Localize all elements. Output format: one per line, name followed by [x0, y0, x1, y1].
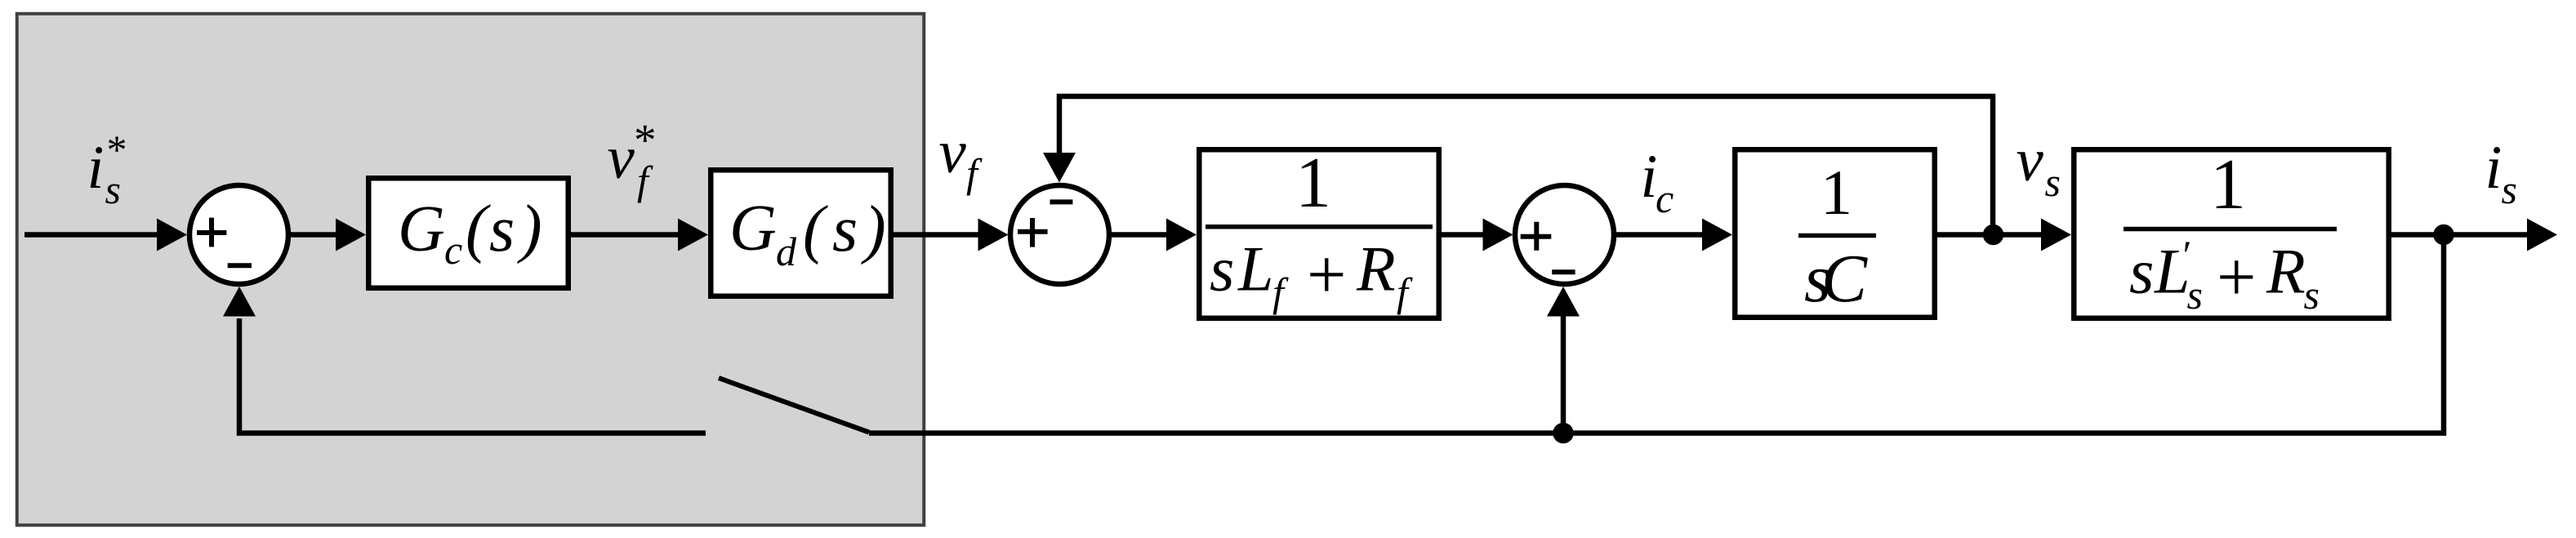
svg-text:(: (	[803, 193, 828, 265]
node is junction dot	[2433, 225, 2454, 246]
svg-text:C: C	[1821, 241, 1868, 317]
svg-text:s: s	[2187, 272, 2203, 318]
label Gd(s)	[729, 193, 886, 274]
svg-text:G: G	[398, 193, 445, 265]
S3 minus sign	[1552, 269, 1575, 274]
svg-text:+: +	[1307, 235, 1347, 313]
svg-text:(: (	[466, 193, 491, 265]
svg-text:+: +	[2217, 238, 2257, 316]
svg-text:*: *	[107, 127, 127, 172]
svg-text:L: L	[1237, 233, 1273, 305]
node vs junction dot	[1983, 225, 2004, 246]
fraction denominator sL's+Rs	[2129, 232, 2320, 318]
svg-text:s: s	[489, 193, 515, 265]
S1 minus sign	[228, 263, 252, 268]
svg-text:i: i	[87, 134, 105, 202]
node label i_s (output)	[2485, 134, 2517, 212]
S3 plus sign	[1521, 222, 1552, 251]
label Gc(s)	[398, 193, 542, 273]
wire: input into summing junction S1	[25, 219, 187, 251]
svg-text:*: *	[634, 115, 657, 165]
wire S1 to block Gc	[290, 219, 366, 251]
wire block 1/(sLf+Rf) to summing junction S3	[1442, 219, 1513, 251]
node label v_f*	[608, 115, 657, 203]
svg-text:s: s	[2304, 272, 2320, 318]
block 1/(sLf+Rf)	[1199, 149, 1439, 318]
svg-text:R: R	[2266, 236, 2306, 307]
svg-text:s: s	[832, 193, 858, 265]
svg-text:c: c	[444, 227, 462, 273]
svg-text:v: v	[939, 118, 967, 186]
summing junction S2	[1010, 185, 1109, 284]
svg-text:): )	[861, 193, 886, 265]
summing junction S3	[1515, 185, 1614, 284]
block Gc	[368, 178, 568, 288]
svg-text:v: v	[2017, 127, 2044, 194]
S2 plus sign	[1018, 218, 1048, 247]
svg-text:1: 1	[1821, 157, 1852, 228]
summing junction S1	[189, 185, 288, 284]
node label v_f	[939, 118, 983, 196]
switch arm (open)	[719, 378, 869, 433]
svg-text:): )	[517, 193, 542, 265]
fraction bar	[1206, 225, 1433, 229]
svg-text:f: f	[966, 150, 983, 196]
svg-text:G: G	[729, 193, 777, 265]
arrow into block 1/(sL's+Rs)	[2041, 219, 2071, 251]
svg-text:d: d	[776, 229, 797, 274]
node label i_s*	[87, 127, 127, 212]
wire Gc to block Gd	[571, 219, 708, 251]
block 1/(sL's+Rs)	[2074, 149, 2389, 318]
wire S2 to block 1/(sLf+Rf)	[1112, 219, 1197, 251]
svg-text:c: c	[1656, 176, 1674, 221]
svg-text:s: s	[1210, 233, 1234, 305]
block Gd	[711, 170, 891, 296]
wire up from feedback into S3	[1547, 287, 1580, 434]
wire Gd to summing junction S2	[894, 219, 1009, 251]
node label i_c	[1641, 143, 1674, 221]
shaded controller region	[17, 14, 925, 526]
fraction bar	[2124, 227, 2337, 232]
node label v_s	[2017, 127, 2061, 205]
svg-text:s: s	[2502, 167, 2517, 212]
svg-text:s: s	[2045, 159, 2061, 205]
fraction denominator sLf+Rf	[1210, 233, 1413, 316]
wire S3 to block 1/sC	[1616, 219, 1732, 251]
svg-text:′: ′	[2181, 232, 2190, 278]
svg-text:1: 1	[1295, 144, 1331, 223]
block 1/sC	[1735, 149, 1935, 318]
feedback wire from node vs to S2 (top)	[1043, 96, 1993, 231]
svg-text:v: v	[608, 124, 635, 192]
fraction bar	[1798, 233, 1876, 238]
feedback wire from node is down and left to switch	[869, 235, 2444, 434]
svg-text:s: s	[105, 167, 121, 212]
S2 minus sign	[1050, 199, 1073, 204]
svg-text:1: 1	[2210, 145, 2246, 225]
fraction denominator sC	[1804, 241, 1868, 317]
svg-text:i: i	[2485, 134, 2502, 202]
svg-text:s: s	[2129, 236, 2154, 307]
output wire with arrow	[2391, 219, 2557, 251]
wire 1/sC to block 1/(sL's+Rs)	[1935, 232, 2047, 238]
S1 plus sign	[197, 218, 226, 247]
svg-text:R: R	[1356, 233, 1396, 305]
feedback wire from switch into S1	[223, 287, 706, 434]
junction dot below S3	[1553, 423, 1574, 444]
